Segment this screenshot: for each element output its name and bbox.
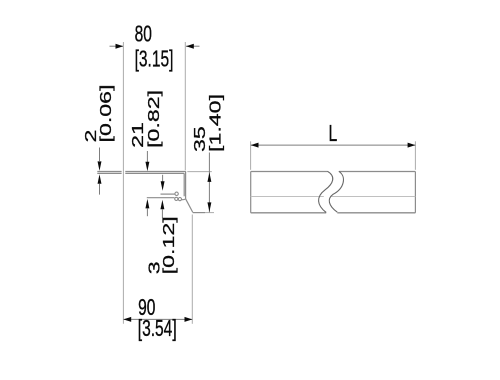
profile bottom flange line: [193, 212, 205, 214]
dim L right arrow: [408, 143, 416, 148]
svg-text:[3.54]: [3.54]: [138, 316, 177, 342]
profile top sheet top line (right of ext gap): [125, 171, 186, 173]
extension line right of 80 (x=185.3): [184, 42, 186, 170]
profile top sheet bottom line (left of ext gap): [97, 172, 121, 174]
bar right edge: [414, 172, 416, 213]
profile diagonal bend: [186, 199, 193, 213]
dim 90 extension right: [191, 215, 193, 324]
svg-text:[0.82]: [0.82]: [146, 90, 163, 148]
profile top sheet bottom line (right of ext gap): [125, 172, 184, 174]
bar top line right segment: [339, 171, 415, 173]
dim 90 left arrow: [123, 317, 131, 322]
dim 35 top arrow (up): [207, 172, 211, 182]
profile top sheet top line (left of ext gap): [97, 171, 121, 173]
dim 2 upper leader: [99, 148, 101, 162]
svg-text:35: 35: [191, 126, 208, 152]
profile right web inner line: [183, 173, 185, 196]
dim 21 upper leader: [146, 151, 148, 162]
dim 21 lower arrow (up): [145, 199, 149, 209]
dim 80 right arrow: [186, 44, 194, 49]
break line right S-curve: [329, 171, 343, 212]
dim 3 upper arrow (down): [161, 181, 165, 191]
dim 80 line right tail: [186, 45, 200, 47]
dim L left arrow: [251, 143, 259, 148]
profile right web outer line: [185, 172, 187, 199]
dim 35 bottom extension line: [205, 212, 214, 214]
dim 2 lower arrow (up): [98, 174, 102, 184]
dim 90 line: [123, 318, 192, 320]
dim 35 bottom arrow (down): [207, 202, 211, 212]
svg-text:80: 80: [135, 22, 152, 48]
dim 3 lower arrow (up): [160, 200, 164, 210]
bar top line left segment: [251, 171, 328, 173]
dim 80 left arrow: [116, 44, 124, 49]
dim L extension right: [414, 141, 416, 170]
profile mid bottom line: [147, 197, 175, 199]
profile hook top line: [161, 193, 175, 195]
bar mid line right segment: [331, 196, 415, 198]
profile hook end circle: [175, 192, 178, 195]
dim L extension left: [250, 141, 252, 170]
bar mid line left segment: [251, 196, 324, 198]
dim 80 line left tail: [110, 45, 124, 47]
dim 3 lower leader: [161, 209, 163, 218]
dim 35 top extension line: [187, 171, 212, 173]
svg-text:[0.12]: [0.12]: [161, 216, 178, 274]
svg-text:L: L: [329, 121, 338, 147]
bar left edge: [250, 172, 252, 213]
dim L line: [251, 144, 416, 146]
dim 21 upper arrow (down): [145, 162, 149, 172]
svg-text:[1.40]: [1.40]: [207, 94, 224, 152]
svg-text:[3.15]: [3.15]: [135, 46, 174, 72]
break line left S-curve: [319, 171, 333, 212]
svg-text:[0.06]: [0.06]: [98, 84, 115, 142]
dim 3 upper leader: [162, 175, 164, 182]
bar bottom line left segment: [251, 212, 327, 214]
dim 2 lower leader: [99, 184, 101, 195]
bar bottom line right segment: [337, 212, 415, 214]
dim 2 upper arrow (down): [98, 161, 102, 171]
extension line left (x=123.4, shared 80/90): [122, 42, 124, 324]
dim 35 vertical line: [208, 153, 210, 213]
dim 21 lower leader: [146, 208, 148, 216]
svg-text:21: 21: [130, 122, 147, 148]
profile curl squiggle loop 2: [178, 198, 181, 201]
profile curl squiggle: [175, 197, 178, 200]
dim 90 right arrow: [185, 317, 193, 322]
profile curl squiggle tail: [182, 198, 186, 201]
